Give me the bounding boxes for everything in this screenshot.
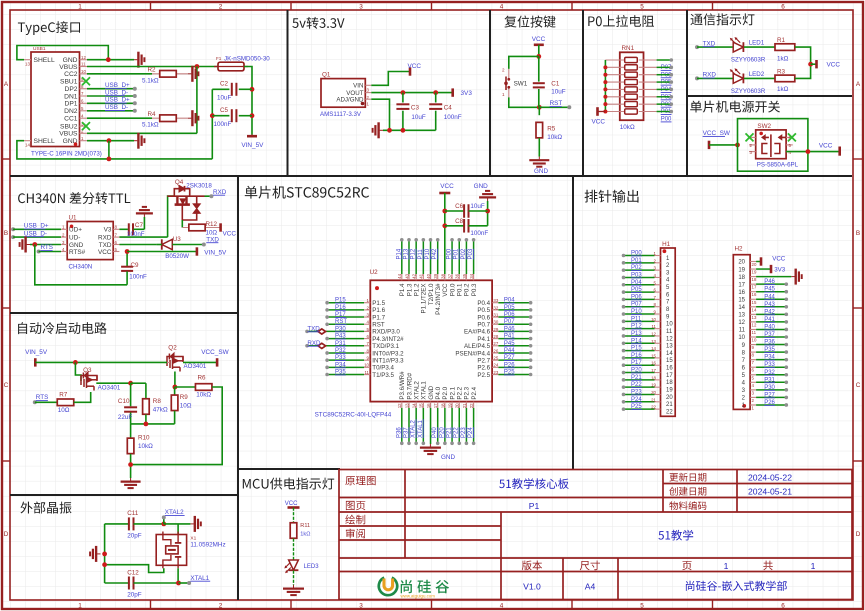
logo 尚硅谷 <box>379 578 397 596</box>
capacitor C7 <box>119 228 128 230</box>
svg-text:24: 24 <box>493 363 498 368</box>
svg-text:P2.3: P2.3 <box>464 386 471 399</box>
ground h2 <box>756 276 791 278</box>
svg-text:23: 23 <box>493 370 498 375</box>
power flag VIN_5V <box>247 135 257 138</box>
svg-text:C9: C9 <box>131 262 140 269</box>
svg-text:18: 18 <box>738 275 745 281</box>
svg-text:RTS: RTS <box>41 244 53 251</box>
switch SW1 <box>508 69 510 98</box>
svg-text:TXD: TXD <box>99 242 112 249</box>
wire SW2 to VCC <box>786 151 839 153</box>
svg-text:R7: R7 <box>59 392 68 399</box>
svg-text:C11: C11 <box>127 510 139 517</box>
capacitor C11 <box>105 523 129 525</box>
svg-text:16: 16 <box>426 403 431 408</box>
svg-text:SHELL: SHELL <box>34 138 55 145</box>
svg-text:22: 22 <box>651 405 656 410</box>
svg-text:TXD/P3.1: TXD/P3.1 <box>372 343 399 350</box>
svg-text:A4: A4 <box>585 582 596 592</box>
resistor R6 <box>195 384 212 391</box>
svg-text:20: 20 <box>738 260 745 266</box>
svg-text:20: 20 <box>455 403 460 408</box>
svg-text:1: 1 <box>78 603 82 610</box>
svg-text:PSEN#/P4.4: PSEN#/P4.4 <box>455 350 490 357</box>
capacitor C8 <box>445 225 464 227</box>
svg-text:5: 5 <box>640 4 644 11</box>
svg-text:P2.5: P2.5 <box>477 372 490 379</box>
svg-text:22uF: 22uF <box>118 414 133 421</box>
svg-text:2: 2 <box>502 68 505 73</box>
svg-text:31: 31 <box>493 312 498 317</box>
svg-text:20: 20 <box>752 262 757 267</box>
svg-text:USB_D-: USB_D- <box>105 104 128 111</box>
no-connect SW2 pin1 <box>746 133 754 141</box>
svg-text:13: 13 <box>25 62 30 67</box>
svg-text:3V3: 3V3 <box>774 267 786 274</box>
svg-text:22: 22 <box>666 409 673 415</box>
svg-text:P0.4: P0.4 <box>477 300 490 307</box>
section title 外部晶振 <box>21 502 72 514</box>
svg-text:P3.6/WR#: P3.6/WR# <box>399 371 406 400</box>
svg-text:C5: C5 <box>220 107 229 114</box>
svg-text:Q1: Q1 <box>322 71 331 78</box>
svg-text:3: 3 <box>359 4 363 11</box>
svg-text:13: 13 <box>666 344 673 350</box>
svg-text:1kΩ: 1kΩ <box>777 55 789 62</box>
svg-text:P2.4: P2.4 <box>471 386 478 399</box>
wire VBUS trunk <box>196 67 198 134</box>
svg-text:Q2: Q2 <box>168 345 177 352</box>
svg-text:INT0#/P3.2: INT0#/P3.2 <box>372 350 404 357</box>
svg-text:GND: GND <box>69 242 84 249</box>
svg-text:B0520W: B0520W <box>165 253 189 260</box>
svg-text:UD-: UD- <box>69 235 80 242</box>
svg-text:F1: F1 <box>216 56 222 61</box>
wire RXD to LED2 <box>695 76 699 80</box>
power flag VCC h2 <box>756 261 760 263</box>
svg-text:10uF: 10uF <box>470 203 485 210</box>
wire VOUT to 3V3 <box>371 92 452 94</box>
svg-text:VIN: VIN <box>353 83 363 90</box>
wire LED1 to R1 <box>744 46 775 48</box>
no-connect SBU2 <box>82 122 90 130</box>
header H2 <box>733 255 750 410</box>
svg-text:T1/P3.5: T1/P3.5 <box>372 372 394 379</box>
wire crystal pin2 to XTAL1 <box>177 568 179 583</box>
svg-text:36: 36 <box>455 273 460 278</box>
wire gnd to C6 <box>487 201 489 226</box>
ground xtal right <box>190 516 200 532</box>
svg-text:20: 20 <box>666 395 673 401</box>
svg-text:3V3: 3V3 <box>461 90 473 97</box>
svg-text:1kΩ: 1kΩ <box>777 86 789 93</box>
connector USB1 TYPE-C <box>31 52 80 147</box>
svg-text:12: 12 <box>738 320 745 326</box>
svg-text:4: 4 <box>500 603 504 610</box>
svg-text:VCC: VCC <box>772 256 786 263</box>
wire LED3 to ground <box>293 571 295 586</box>
svg-text:11: 11 <box>364 370 369 375</box>
svg-text:U2: U2 <box>370 269 379 276</box>
resistor R3 <box>775 75 795 82</box>
title block label 绘制 <box>345 515 365 525</box>
svg-text:18: 18 <box>666 380 673 386</box>
svg-text:12: 12 <box>81 55 86 60</box>
ground xtal left <box>90 546 100 562</box>
wire F1 out to VIN_5V <box>244 67 252 135</box>
svg-text:B: B <box>856 230 860 237</box>
svg-text:100nF: 100nF <box>444 114 462 121</box>
svg-text:10Ω: 10Ω <box>180 403 192 410</box>
svg-text:19: 19 <box>651 383 656 388</box>
svg-text:42: 42 <box>412 273 417 278</box>
svg-text:P2.7: P2.7 <box>477 357 490 364</box>
svg-text:SW1: SW1 <box>514 81 528 88</box>
ground GND reset <box>529 157 549 167</box>
svg-text:RXD/P3.0: RXD/P3.0 <box>372 329 400 336</box>
svg-text:USB1: USB1 <box>33 46 46 52</box>
svg-text:DP1: DP1 <box>64 101 77 108</box>
wires RN1 outputs P00-P07 <box>657 59 672 61</box>
svg-text:C8: C8 <box>455 218 464 225</box>
section title P0上拉电阻 <box>588 15 654 27</box>
svg-text:47kΩ: 47kΩ <box>153 407 168 414</box>
wire cap trunk left <box>211 89 213 159</box>
svg-text:C: C <box>4 382 9 389</box>
svg-text:C1: C1 <box>551 81 560 88</box>
title block label 版本 <box>522 561 542 571</box>
svg-text:11: 11 <box>752 330 757 335</box>
svg-text:R11: R11 <box>300 523 310 529</box>
svg-text:11: 11 <box>81 62 86 67</box>
svg-text:P1.4: P1.4 <box>399 283 406 296</box>
ground U1 <box>20 237 30 253</box>
no-connect SBU1 <box>82 77 90 85</box>
svg-text:40: 40 <box>426 273 431 278</box>
svg-text:18: 18 <box>651 375 656 380</box>
svg-text:P1.3: P1.3 <box>406 283 413 296</box>
wire GND to C9 rail <box>35 245 127 285</box>
svg-text:R1: R1 <box>777 37 786 44</box>
svg-text:VCC: VCC <box>827 62 841 69</box>
svg-text:19: 19 <box>738 267 745 273</box>
svg-text:D: D <box>856 531 861 538</box>
svg-text:12: 12 <box>752 322 757 327</box>
svg-text:VIN_5V: VIN_5V <box>204 249 227 256</box>
svg-text:16: 16 <box>738 290 745 296</box>
svg-text:13: 13 <box>752 315 757 320</box>
svg-text:SZYY0603R: SZYY0603R <box>731 57 766 64</box>
svg-text:10uF: 10uF <box>411 114 426 121</box>
svg-text:P4.2/INT3#: P4.2/INT3# <box>435 283 442 315</box>
svg-text:C2: C2 <box>220 81 229 88</box>
wire RTS <box>37 250 41 254</box>
resistor R8 <box>145 383 147 398</box>
svg-text:12: 12 <box>666 336 673 342</box>
svg-text:34: 34 <box>469 273 474 278</box>
title block label 图页 <box>346 501 365 510</box>
wires U2 left nets <box>327 302 364 304</box>
svg-text:GND: GND <box>474 183 489 190</box>
svg-text:R9: R9 <box>180 394 189 401</box>
svg-text:RXD: RXD <box>98 235 112 242</box>
wire gnd rail 5v section <box>383 129 436 131</box>
svg-text:1: 1 <box>811 561 816 571</box>
svg-text:P2.6: P2.6 <box>477 365 490 372</box>
svg-text:GND: GND <box>534 168 548 175</box>
wire SHELL13 to GND12 loop <box>17 46 108 60</box>
ground GND12 <box>134 52 144 68</box>
svg-text:19: 19 <box>447 403 452 408</box>
wire down to crystal <box>177 524 179 535</box>
capacitor C5 <box>212 115 229 117</box>
power flag VIN_5V ch340 <box>196 247 199 255</box>
svg-text:16: 16 <box>752 292 757 297</box>
svg-text:13: 13 <box>404 403 409 408</box>
resistor R11 <box>290 523 297 539</box>
wire ADJ/GND down <box>371 99 389 130</box>
svg-text:D: D <box>4 531 9 538</box>
svg-text:16: 16 <box>651 361 656 366</box>
resistor R9 <box>174 387 176 395</box>
header H1 <box>661 248 676 416</box>
svg-text:13: 13 <box>738 313 745 319</box>
svg-text:44: 44 <box>397 273 402 278</box>
capacitor C6 <box>445 210 464 212</box>
svg-text:LED2: LED2 <box>749 71 765 78</box>
svg-text:RST: RST <box>372 322 385 329</box>
svg-text:VCC: VCC <box>819 143 833 150</box>
svg-text:RTS#: RTS# <box>69 249 86 256</box>
svg-text:12: 12 <box>651 331 656 336</box>
U2 top pins <box>402 274 474 280</box>
svg-text:14: 14 <box>738 305 745 311</box>
svg-text:11: 11 <box>739 328 746 334</box>
wire Q3 drain to C10 node <box>96 382 130 384</box>
svg-text:14: 14 <box>25 143 30 148</box>
fuse F1 <box>218 62 244 71</box>
title block label 页/共 <box>682 561 691 570</box>
wires U2 bottom nets <box>401 408 403 443</box>
svg-text:www.atguigu.com: www.atguigu.com <box>401 593 436 598</box>
svg-text:LED3: LED3 <box>304 564 320 570</box>
svg-text:DP2: DP2 <box>64 86 77 93</box>
title block value 51教学核心板 <box>499 478 569 489</box>
svg-text:38: 38 <box>440 273 445 278</box>
svg-text:C: C <box>856 382 861 389</box>
wire DN2 USB_D- <box>87 110 135 112</box>
svg-text:VIN_5V: VIN_5V <box>241 142 264 149</box>
svg-text:P0.2: P0.2 <box>464 283 471 296</box>
svg-text:CC1: CC1 <box>64 116 78 123</box>
regulator Q1 AMS1117-3.3V <box>321 79 365 108</box>
ground cold start <box>121 478 141 488</box>
section title TypeC接口 <box>18 21 80 35</box>
svg-text:R4: R4 <box>148 111 157 118</box>
svg-text:2024-05-22: 2024-05-22 <box>748 473 792 483</box>
svg-text:4: 4 <box>500 4 504 11</box>
switch SW2 PS-5850A-6PL <box>756 130 786 159</box>
svg-text:14: 14 <box>752 307 757 312</box>
svg-text:15: 15 <box>752 300 757 305</box>
svg-text:37: 37 <box>447 273 452 278</box>
wire VIN_5V rail <box>35 361 166 363</box>
svg-text:10: 10 <box>752 338 757 343</box>
svg-text:P1.7: P1.7 <box>372 314 385 321</box>
svg-text:T0/P3.4: T0/P3.4 <box>372 365 394 372</box>
power flag 3V3 h2 <box>756 268 770 270</box>
svg-text:VIN_5V: VIN_5V <box>25 349 48 356</box>
svg-text:SW2: SW2 <box>757 123 771 130</box>
wire to SW1 <box>509 56 539 69</box>
wire RTS to R7 <box>33 400 37 404</box>
ground mcu bottom <box>420 444 441 454</box>
wire TXD to LED1 <box>695 45 699 49</box>
svg-text:14: 14 <box>412 403 417 408</box>
svg-text:15: 15 <box>738 297 745 303</box>
title block label 创建日期 <box>669 487 706 496</box>
wire C10 R8 bottom rail <box>131 423 175 425</box>
svg-text:SHELL: SHELL <box>34 57 55 64</box>
wire TXD net <box>119 244 156 246</box>
LED LED2 <box>730 68 744 83</box>
wire VBUS11 <box>87 66 218 68</box>
svg-text:C3: C3 <box>411 105 420 112</box>
capacitor C1 <box>538 56 540 81</box>
wire XTAL2 node <box>161 522 166 527</box>
wire Q2 to VCC_SW <box>183 361 217 363</box>
svg-text:5.1kΩ: 5.1kΩ <box>142 77 159 84</box>
svg-text:A: A <box>856 81 861 88</box>
svg-text:U1: U1 <box>69 214 78 221</box>
resistor network RN1 <box>620 52 644 120</box>
wire Q4 source to R12 <box>181 220 183 228</box>
svg-text:AMS1117-3.3V: AMS1117-3.3V <box>320 111 362 118</box>
power flag 3V3 <box>451 88 454 96</box>
capacitor C3 <box>402 93 404 103</box>
resistor R4 <box>152 117 188 119</box>
net flag RXD <box>318 343 326 348</box>
svg-text:20pF: 20pF <box>127 533 142 540</box>
title block frame <box>339 470 852 600</box>
ground after R2 <box>188 66 198 82</box>
net flag TXD <box>318 329 326 334</box>
svg-text:14: 14 <box>666 351 673 357</box>
section title 单片机电源开关 <box>690 101 780 113</box>
svg-text:P0.0: P0.0 <box>449 283 456 296</box>
LED LED1 <box>730 37 744 52</box>
wire RXD net to Q4 <box>119 236 167 238</box>
power flag VCC R12 <box>219 223 222 231</box>
svg-text:R10: R10 <box>138 434 150 441</box>
svg-text:26: 26 <box>493 348 498 353</box>
wire DP1 USB_D+ <box>87 102 135 104</box>
resistor R12 <box>182 227 220 229</box>
svg-text:10: 10 <box>81 69 86 74</box>
svg-text:C7: C7 <box>135 222 144 229</box>
wire RXD out <box>205 195 212 197</box>
svg-text:USB_D+: USB_D+ <box>105 82 130 89</box>
svg-text:1: 1 <box>78 4 82 11</box>
section title 通信指示灯 <box>691 13 755 25</box>
svg-text:P1.2: P1.2 <box>413 283 420 296</box>
svg-text:P2.0: P2.0 <box>442 386 449 399</box>
svg-text:P2.1: P2.1 <box>449 386 456 399</box>
svg-text:AO3401: AO3401 <box>184 363 207 370</box>
svg-text:29: 29 <box>493 327 498 332</box>
svg-text:VBUS: VBUS <box>59 64 78 71</box>
svg-text:41: 41 <box>419 273 424 278</box>
svg-text:VCC: VCC <box>285 501 298 507</box>
svg-text:17: 17 <box>433 403 438 408</box>
wire GND1 <box>87 140 134 142</box>
junction <box>106 57 111 62</box>
power flag VCC RN1 <box>598 110 606 112</box>
svg-text:10: 10 <box>651 317 656 322</box>
section title 自动冷启动电路 <box>18 322 107 334</box>
svg-text:11: 11 <box>651 324 656 329</box>
wire SW1 to RST node <box>509 97 540 107</box>
svg-text:VCC: VCC <box>592 119 606 126</box>
svg-text:P0.1: P0.1 <box>457 283 464 296</box>
svg-text:17: 17 <box>651 368 656 373</box>
svg-text:U3: U3 <box>173 236 182 243</box>
svg-text:P0.6: P0.6 <box>477 314 490 321</box>
crystal X1 11.0592MHz <box>156 535 186 566</box>
svg-text:10kΩ: 10kΩ <box>138 443 153 450</box>
title block value 尚硅谷-嵌入式教学部 <box>686 581 787 591</box>
capacitor C12 <box>105 582 129 584</box>
svg-text:VCC: VCC <box>442 283 449 297</box>
svg-text:R6: R6 <box>198 374 207 381</box>
svg-text:3: 3 <box>359 603 363 610</box>
svg-text:28: 28 <box>493 334 498 339</box>
svg-text:30: 30 <box>493 320 498 325</box>
resistor R5 <box>538 107 540 115</box>
svg-text:P1.5: P1.5 <box>372 300 385 307</box>
svg-text:P0.3: P0.3 <box>471 283 478 296</box>
svg-text:15: 15 <box>419 403 424 408</box>
svg-text:VCC: VCC <box>98 249 112 256</box>
svg-text:T2/P1.0: T2/P1.0 <box>428 283 435 305</box>
wire Q2 gate down <box>174 372 176 388</box>
wire crystal pin1 step <box>105 565 164 573</box>
svg-text:RST: RST <box>550 100 563 107</box>
wire USB_D+ input <box>11 227 15 231</box>
title block label 审阅 <box>346 529 365 539</box>
title block value 51教学 <box>658 530 693 541</box>
wires U2 top nets <box>401 240 403 274</box>
svg-text:17: 17 <box>738 282 745 288</box>
ground C7 <box>136 207 153 217</box>
svg-text:CH340N: CH340N <box>69 264 93 271</box>
svg-text:19: 19 <box>752 270 757 275</box>
svg-text:C12: C12 <box>127 570 139 577</box>
svg-text:H2: H2 <box>735 246 744 253</box>
resistor R2 <box>152 73 188 75</box>
wire GND pin to ground <box>30 244 61 246</box>
capacitor C4 <box>435 93 437 103</box>
title block label 原理图 <box>345 476 375 485</box>
svg-text:TYPE-C 16PIN 2MD(073): TYPE-C 16PIN 2MD(073) <box>31 151 102 158</box>
svg-text:SBU2: SBU2 <box>60 124 78 131</box>
title block label 物料编码 <box>669 501 706 510</box>
wire R7 to Q3 gate <box>74 392 91 402</box>
ground after R4 <box>188 110 198 126</box>
wire VCC pin to VIN_5V <box>127 251 196 253</box>
svg-text:INT1#/P3.3: INT1#/P3.3 <box>372 357 404 364</box>
